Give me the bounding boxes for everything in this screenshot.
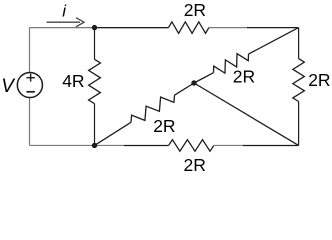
wire node A down to 4R xyxy=(94,28,96,60)
resistor 2R upper-diagonal (zigzag) xyxy=(214,54,249,73)
wire left vertical upper (TL to source top) xyxy=(29,28,31,73)
wire top: 2R to mid segment xyxy=(209,27,247,29)
voltage source plus sign xyxy=(26,74,35,82)
svg-text:2R: 2R xyxy=(233,66,255,86)
resistor 4R (zigzag) xyxy=(89,59,101,103)
wire lower 2R lead to node C xyxy=(175,83,195,95)
voltage source minus sign xyxy=(26,91,35,93)
wire bottom: node B to 2R lead xyxy=(124,144,169,146)
wire bottom: 2R to mid segment xyxy=(214,144,243,146)
svg-text:2R: 2R xyxy=(308,70,330,90)
wire bottom: BL corner toward node B xyxy=(30,144,125,146)
resistor 2R bottom (zigzag) xyxy=(169,140,214,152)
wire node C diagonal to upper 2R lead xyxy=(194,73,214,83)
wire top: node A to 2R lead xyxy=(95,27,169,29)
voltage source V (circle) xyxy=(17,72,42,97)
wire right: 2R down to BR corner xyxy=(298,102,300,146)
wire node C diagonal to BR corner xyxy=(194,83,299,145)
wire bottom: mid segment to BR corner xyxy=(243,144,299,146)
wire top: TL corner to node A xyxy=(30,27,169,29)
circuit schematic: bridge resistor network driven by source V xyxy=(0,0,332,176)
node C (center junction dot) xyxy=(191,80,196,85)
current arrow i xyxy=(47,18,84,27)
wire right: TR corner down to 2R xyxy=(298,28,300,59)
svg-text:2R: 2R xyxy=(153,116,175,136)
resistor 2R right (zigzag) xyxy=(293,59,305,102)
wire 4R down to node B xyxy=(94,104,96,146)
resistor 2R lower-diagonal (zigzag) xyxy=(131,95,175,122)
svg-text:2R: 2R xyxy=(184,155,206,175)
node A (top junction dot) xyxy=(92,25,97,30)
wire upper 2R lead to TR corner xyxy=(249,28,299,54)
svg-text:V: V xyxy=(1,76,16,97)
svg-text:i: i xyxy=(62,2,67,21)
svg-text:4R: 4R xyxy=(62,71,84,91)
wire node B diagonal to lower 2R lead xyxy=(95,122,132,145)
wire top: mid segment to TR corner xyxy=(247,27,299,29)
svg-text:2R: 2R xyxy=(184,0,206,20)
node B (bottom junction dot) xyxy=(92,143,97,148)
wire left vertical lower (source bottom to BL) xyxy=(29,98,31,145)
resistor 2R top (zigzag) xyxy=(169,22,209,33)
